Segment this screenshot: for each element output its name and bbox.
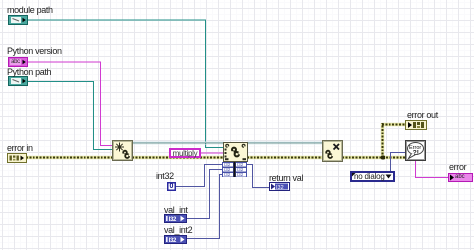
svg-text:I32: I32 [237,172,244,177]
svg-text:I32: I32 [276,185,284,190]
svg-text:I32: I32 [169,238,177,243]
svg-text:?!: ?! [413,150,419,157]
svg-text:I32: I32 [224,172,231,177]
svg-text:I32: I32 [169,217,177,222]
